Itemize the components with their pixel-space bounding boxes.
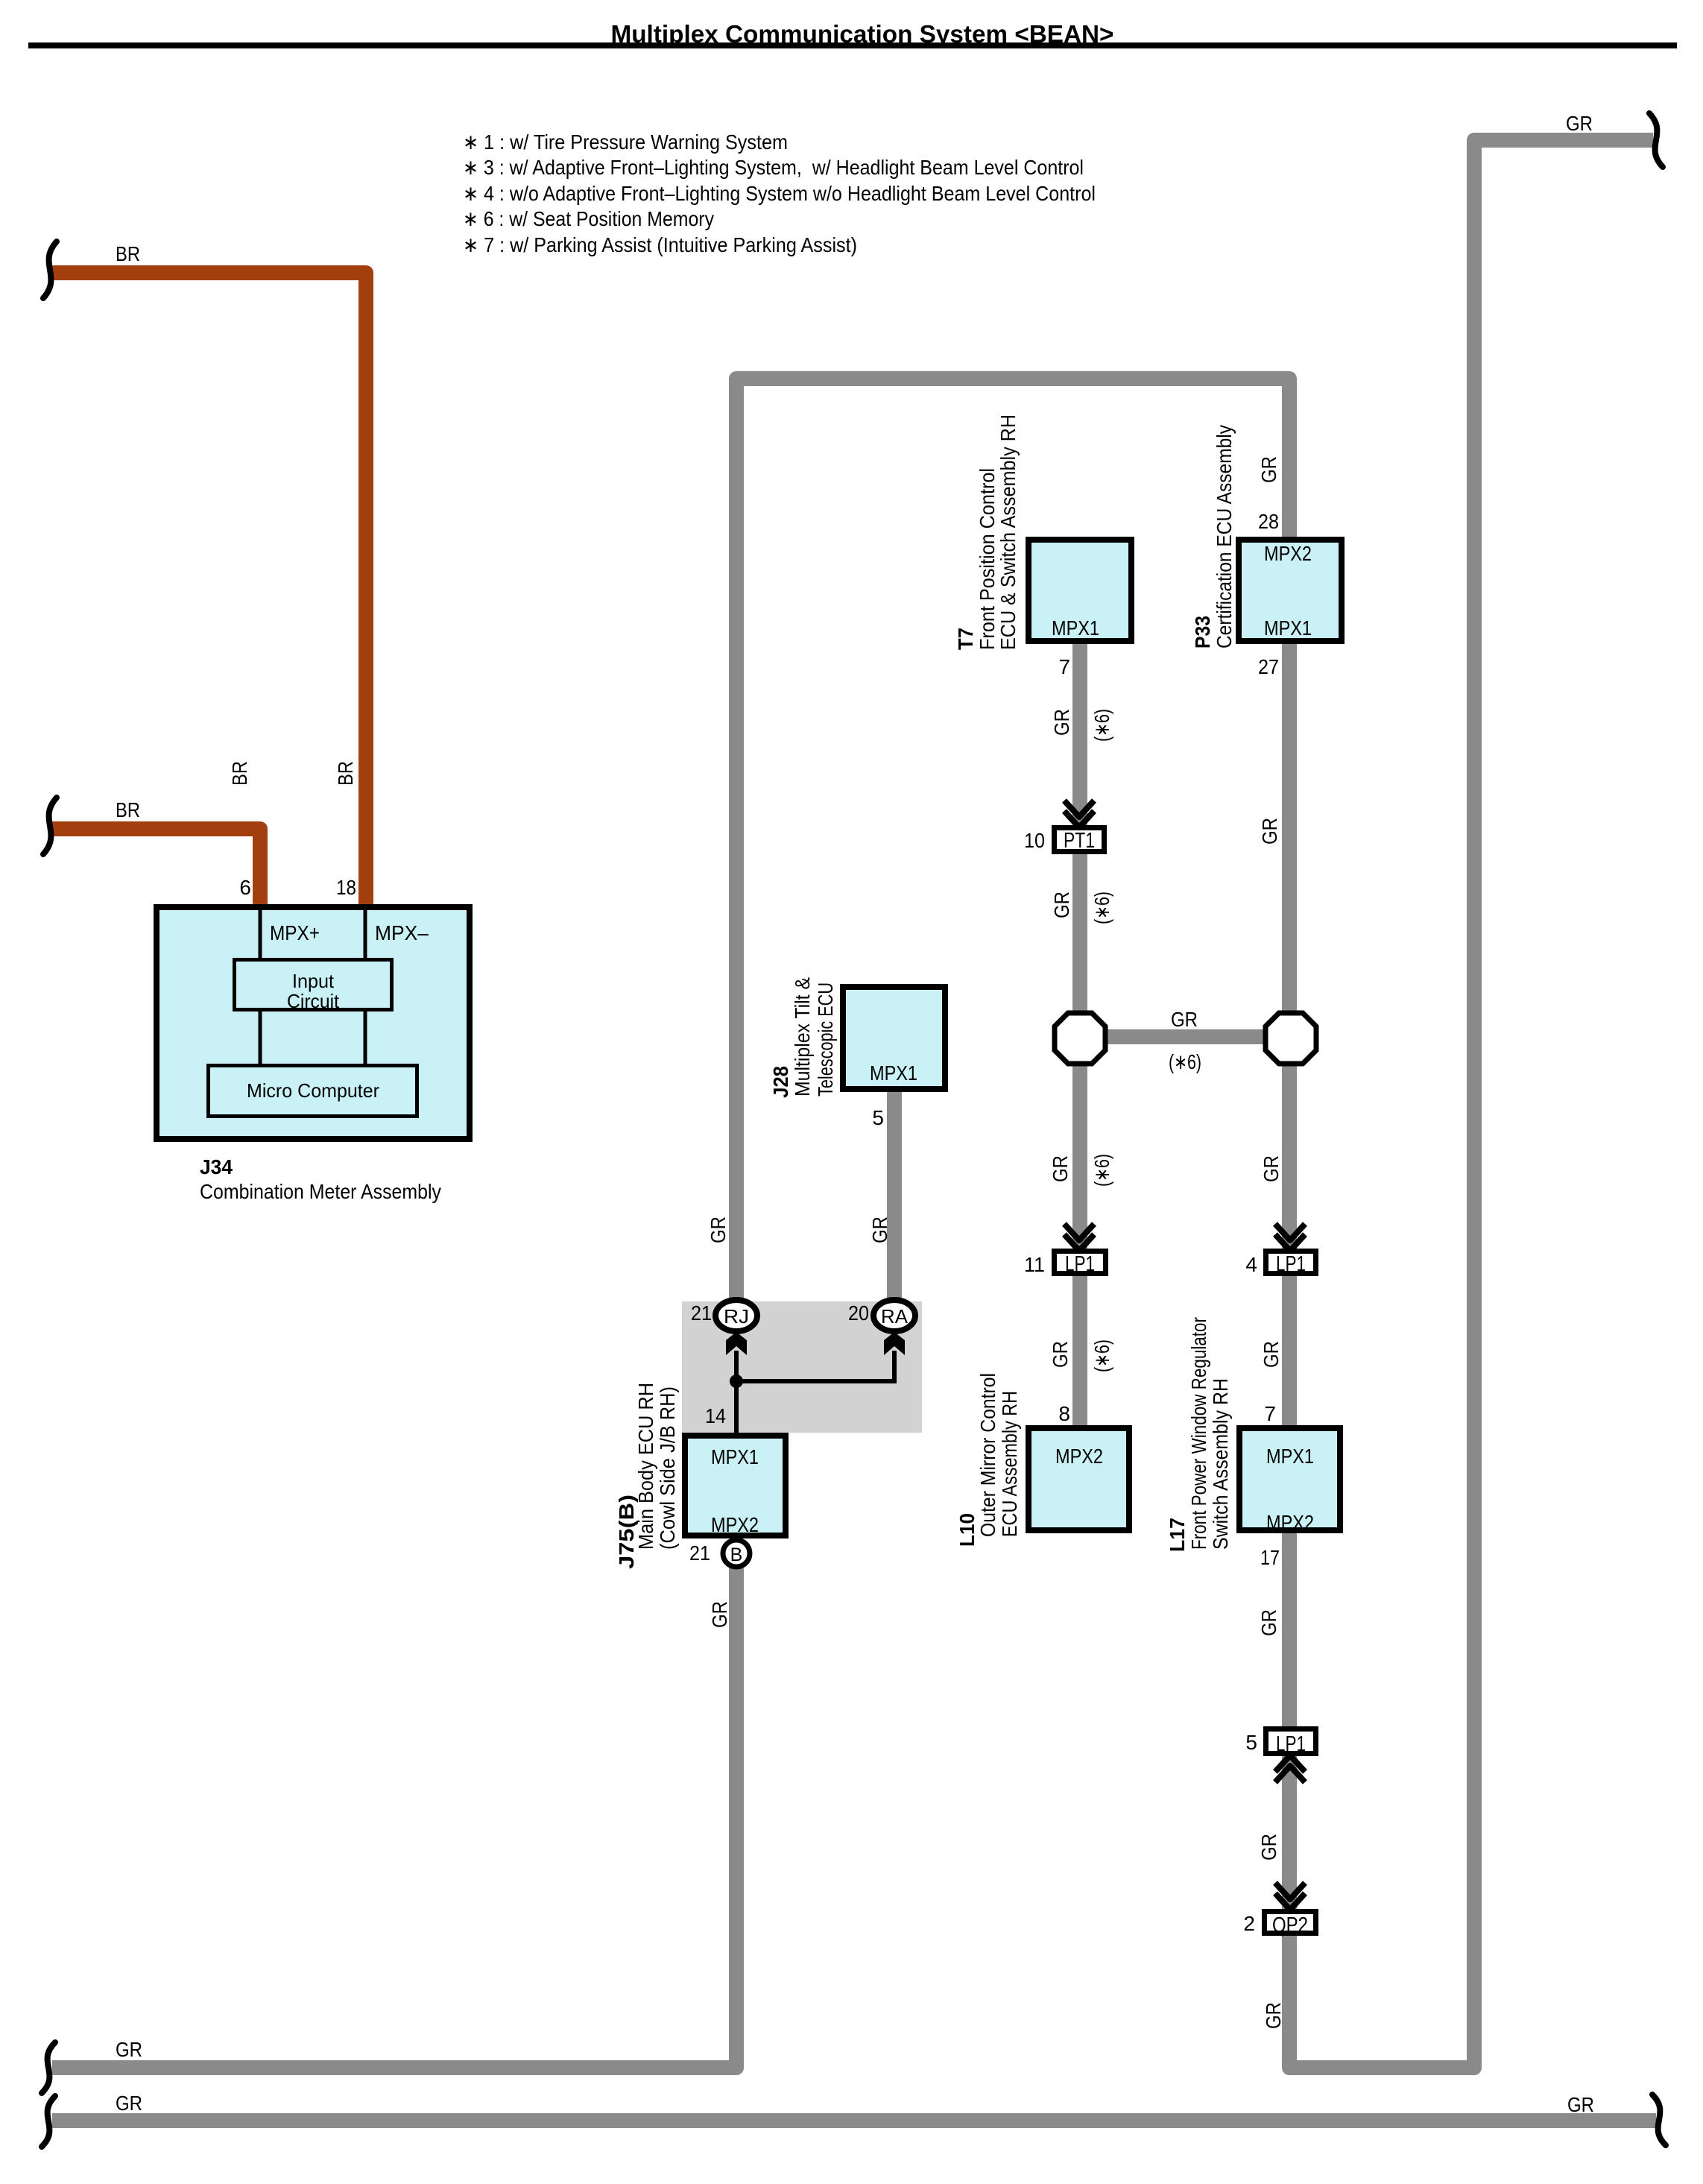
label P33 rotated: [1191, 616, 1214, 648]
pin 11 at LP1 left: [1024, 1253, 1045, 1276]
label BR rotated pin18: [334, 761, 357, 786]
pin 21 at RJ: [691, 1301, 712, 1325]
label GR on P33 wire above octagon: [1258, 818, 1281, 845]
svg-text:Combination Meter Assembly: Combination Meter Assembly: [200, 1180, 441, 1203]
svg-text:GR: GR: [1260, 1341, 1283, 1368]
svg-text:L17: L17: [1166, 1518, 1189, 1552]
wire BR to J34 pin6: [52, 829, 260, 906]
svg-text:(∗6): (∗6): [1090, 1339, 1113, 1372]
ECU J34 Combination Meter Assembly outline and internal leads: [157, 904, 470, 1139]
svg-text:Circuit: Circuit: [287, 990, 340, 1012]
svg-text:MPX2: MPX2: [1264, 542, 1312, 565]
svg-text:8: 8: [1058, 1402, 1070, 1425]
svg-text:GR: GR: [1566, 112, 1593, 135]
svg-text:BR: BR: [334, 761, 357, 786]
label GR below pin 17: [1257, 1609, 1280, 1636]
connector circle B: [723, 1540, 750, 1567]
svg-text:GR: GR: [708, 1601, 731, 1628]
svg-text:MPX1: MPX1: [1264, 616, 1312, 640]
svg-text:RJ: RJ: [724, 1305, 749, 1328]
label BR: [116, 798, 140, 821]
label L10 rotated: [955, 1513, 979, 1547]
svg-text:MPX+: MPX+: [270, 921, 320, 944]
ECU J75(B) Main Body ECU box: [685, 1436, 786, 1536]
chevron arrows into LP1 right: [1275, 1224, 1305, 1251]
svg-text:B: B: [730, 1544, 743, 1565]
title: [611, 20, 1114, 48]
thin bus line RJ to junction to J75B pin14: [734, 1351, 739, 1433]
svg-text:GR: GR: [1262, 2002, 1285, 2029]
svg-text:MPX2: MPX2: [1266, 1511, 1314, 1534]
svg-text:ECU & Switch Assembly RH: ECU & Switch Assembly RH: [996, 414, 1020, 650]
wire GR J28 pin5 down to RA: [887, 1092, 902, 1304]
svg-text:Certification ECU Assembly: Certification ECU Assembly: [1213, 425, 1236, 648]
svg-text:4: 4: [1245, 1253, 1257, 1276]
inner block Input Circuit: [235, 960, 392, 1013]
label GR below PT1: [1050, 891, 1073, 918]
label GR bottom right: [1567, 2093, 1594, 2116]
label GR below B: [708, 1601, 731, 1628]
svg-text:J34: J34: [200, 1155, 233, 1178]
svg-text:6: 6: [239, 876, 251, 899]
wire GR T7 pin7 down to L10 pin8: [1072, 643, 1087, 1427]
svg-text:BR: BR: [116, 798, 140, 821]
arrow into RA: [884, 1332, 905, 1355]
svg-text:RA: RA: [881, 1305, 909, 1328]
splice octagon left: [1055, 1013, 1105, 1064]
label (*6) octagon link: [1169, 1050, 1201, 1073]
pin 6 of J34: [239, 876, 251, 899]
label GR top right: [1566, 112, 1593, 135]
svg-text:MPX1: MPX1: [711, 1445, 759, 1468]
pin 18 of J34: [336, 876, 356, 899]
label GR below LP1 left: [1049, 1341, 1072, 1368]
svg-text:∗ 4 : w/o Adaptive Front–Light: ∗ 4 : w/o Adaptive Front–Lighting System…: [463, 182, 1096, 205]
label (*6) below LP1 left: [1090, 1339, 1113, 1372]
svg-text:27: 27: [1258, 655, 1279, 678]
svg-text:BR: BR: [228, 761, 251, 786]
svg-text:∗ 7 : w/ Parking Assist (Intui: ∗ 7 : w/ Parking Assist (Intuitive Parki…: [463, 233, 857, 256]
label GR octagon link: [1171, 1008, 1198, 1031]
label GR bottom left upper: [116, 2038, 142, 2061]
connector QP2: [1265, 1912, 1316, 1938]
label J34: [200, 1155, 233, 1178]
svg-text:GR: GR: [1257, 1609, 1280, 1636]
label MPX+ pin name: [270, 921, 320, 944]
svg-text:ECU Assembly RH: ECU Assembly RH: [998, 1391, 1021, 1537]
wire-break brace BR lower: [43, 798, 57, 854]
label GR below LP1 right: [1260, 1341, 1283, 1368]
wire GR trunk RJ-up-right to P33 pin28: [736, 379, 1289, 1304]
label J75(B) rotated: [615, 1495, 638, 1569]
svg-text:GR: GR: [116, 2038, 142, 2061]
label Telescopic ECU rotated: [814, 982, 837, 1096]
connector LP1 left: [1055, 1252, 1106, 1277]
label L17 rotated: [1166, 1518, 1189, 1552]
notes legend: [463, 130, 1096, 256]
label Main Body ECU RH rotated: [634, 1383, 657, 1550]
wire BR to J34 pin18: [52, 273, 366, 906]
svg-text:MPX2: MPX2: [1055, 1445, 1103, 1468]
connector oval RJ: [715, 1300, 757, 1331]
svg-text:GR: GR: [116, 2092, 142, 2115]
svg-text:Input: Input: [292, 970, 335, 992]
svg-text:GR: GR: [707, 1216, 730, 1243]
pin 7 of L17: [1264, 1402, 1276, 1425]
wire GR L17 pin17 down to QP2 to bottom right up to top brace: [1289, 140, 1653, 2068]
title rule: [28, 42, 1677, 48]
pin 20 at RA: [848, 1301, 869, 1325]
svg-text:PT1: PT1: [1064, 829, 1095, 853]
svg-text:T7: T7: [954, 628, 977, 650]
svg-text:MPX1: MPX1: [1052, 616, 1099, 640]
chevron arrows out of LP1 bottom: [1275, 1755, 1305, 1782]
svg-text:(∗6): (∗6): [1090, 891, 1113, 924]
pin 5 at LP1 bottom: [1245, 1731, 1257, 1754]
pin 28 of P33: [1258, 510, 1279, 533]
connector oval RA: [873, 1300, 915, 1331]
pin 17 of L17: [1260, 1546, 1280, 1569]
label GR on P33 top wire: [1257, 456, 1280, 483]
junction dot: [730, 1375, 743, 1388]
pin 21 at B: [689, 1541, 710, 1565]
svg-text:Multiplex Tilt &: Multiplex Tilt &: [791, 977, 814, 1096]
svg-text:21: 21: [689, 1541, 710, 1565]
svg-text:P33: P33: [1191, 616, 1214, 648]
svg-text:10: 10: [1024, 829, 1045, 852]
svg-text:(∗6): (∗6): [1090, 709, 1113, 742]
svg-text:LP1: LP1: [1276, 1252, 1306, 1276]
label (*6) above PT1: [1090, 709, 1113, 742]
wire GR octagon link: [1080, 1029, 1291, 1044]
label Certification ECU Assembly rotated: [1213, 425, 1236, 648]
pin 5 of J28: [872, 1106, 884, 1129]
svg-text:Main Body ECU RH: Main Body ECU RH: [634, 1383, 657, 1550]
pin 14 of J75B: [705, 1404, 726, 1427]
label BR: [116, 242, 140, 265]
pin 27 of P33: [1258, 655, 1279, 678]
ECU P33 Certification ECU box: [1239, 540, 1342, 641]
svg-text:GR: GR: [1257, 1834, 1280, 1860]
svg-text:5: 5: [872, 1106, 884, 1129]
svg-text:7: 7: [1264, 1402, 1276, 1425]
svg-text:21: 21: [691, 1301, 712, 1325]
pin 4 at LP1 right: [1245, 1253, 1257, 1276]
connector PT1: [1055, 828, 1105, 853]
svg-text:BR: BR: [116, 242, 140, 265]
junction block J/B shaded area: [682, 1301, 922, 1433]
svg-text:14: 14: [705, 1404, 726, 1427]
label Cowl Side J/B RH rotated: [656, 1386, 679, 1550]
svg-text:QP2: QP2: [1272, 1913, 1308, 1937]
svg-text:Switch Assembly RH: Switch Assembly RH: [1209, 1378, 1232, 1550]
svg-text:5: 5: [1245, 1731, 1257, 1754]
wire-break brace GR bottom left upper: [42, 2042, 55, 2093]
ECU L10 Outer Mirror Control box: [1029, 1428, 1129, 1530]
svg-text:GR: GR: [1050, 709, 1073, 736]
ECU L17 Front Power Window Regulator box: [1239, 1428, 1340, 1534]
svg-text:GR: GR: [1050, 891, 1073, 918]
ECU J28 Multiplex Tilt and Telescopic box: [843, 987, 945, 1089]
wire-break brace GR bottom left lower: [42, 2096, 55, 2147]
svg-text:17: 17: [1260, 1546, 1280, 1569]
connector LP1 bottom: [1266, 1729, 1316, 1757]
label Outer Mirror Control rotated: [976, 1373, 999, 1537]
label GR above PT1: [1050, 709, 1073, 736]
label (*6) below PT1: [1090, 891, 1113, 924]
svg-text:2: 2: [1243, 1912, 1255, 1935]
label Front Position Control rotated: [976, 468, 999, 650]
label GR below right octagon: [1260, 1155, 1283, 1182]
svg-text:Front Position Control: Front Position Control: [976, 468, 999, 650]
label Multiplex Tilt & rotated: [791, 977, 814, 1096]
svg-text:Micro Computer: Micro Computer: [247, 1079, 379, 1102]
svg-text:GR: GR: [1171, 1008, 1198, 1031]
svg-text:(∗6): (∗6): [1090, 1154, 1113, 1187]
label MPX- pin name: [375, 921, 429, 944]
label GR bottom left lower: [116, 2092, 142, 2115]
label (*6) below left octagon: [1090, 1154, 1113, 1187]
svg-text:GR: GR: [1257, 456, 1280, 483]
label BR rotated pin6: [228, 761, 251, 786]
svg-text:Front Power Window Regulator: Front Power Window Regulator: [1187, 1317, 1210, 1550]
svg-text:GR: GR: [1049, 1155, 1072, 1182]
svg-text:Telescopic ECU: Telescopic ECU: [814, 982, 837, 1096]
splice octagon right: [1266, 1013, 1316, 1064]
wire-break brace BR top: [43, 242, 57, 298]
label Front Power Window Regulator rotated: [1187, 1317, 1210, 1550]
inner block Micro Computer: [209, 1066, 417, 1117]
chevron arrows into PT1: [1064, 801, 1094, 827]
svg-text:GR: GR: [1258, 818, 1281, 845]
svg-text:∗ 1 : w/ Tire Pressure Warning: ∗ 1 : w/ Tire Pressure Warning System: [463, 130, 788, 154]
label Switch Assembly RH rotated: [1209, 1378, 1232, 1550]
svg-text:MPX2: MPX2: [711, 1513, 759, 1536]
wire-break brace GR top right: [1649, 113, 1663, 167]
pin 8 of L10: [1058, 1402, 1070, 1425]
svg-text:L10: L10: [955, 1513, 979, 1547]
chevron arrows into QP2: [1275, 1883, 1305, 1910]
label GR below LP1 bottom: [1257, 1834, 1280, 1860]
svg-text:∗ 3 : w/ Adaptive Front–Lighti: ∗ 3 : w/ Adaptive Front–Lighting System,…: [463, 156, 1084, 179]
svg-text:20: 20: [848, 1301, 869, 1325]
pin 10 at PT1: [1024, 829, 1045, 852]
label GR below QP2: [1262, 2002, 1285, 2029]
svg-text:∗ 6 : w/ Seat Position Memory: ∗ 6 : w/ Seat Position Memory: [463, 207, 714, 230]
svg-text:GR: GR: [868, 1216, 891, 1243]
svg-text:LP1: LP1: [1065, 1252, 1095, 1276]
label ECU Assembly RH rotated: [998, 1391, 1021, 1537]
wire GR P33 pin27 down to L17 pin7: [1282, 643, 1297, 1427]
svg-text:GR: GR: [1260, 1155, 1283, 1182]
svg-text:11: 11: [1024, 1253, 1045, 1276]
svg-text:(Cowl Side J/B RH): (Cowl Side J/B RH): [656, 1386, 679, 1550]
label GR on J28 wire: [868, 1216, 891, 1243]
pin 2 at QP2: [1243, 1912, 1255, 1935]
label T7 rotated: [954, 628, 977, 650]
svg-text:MPX1: MPX1: [1266, 1445, 1314, 1468]
pin 7 of T7: [1058, 655, 1070, 678]
thin bus line junction to RA: [736, 1351, 894, 1381]
wire GR bottom full width: [52, 2113, 1656, 2128]
connector LP1 right: [1266, 1252, 1316, 1277]
svg-text:MPX–: MPX–: [375, 921, 429, 944]
svg-text:28: 28: [1258, 510, 1279, 533]
svg-text:Outer Mirror Control: Outer Mirror Control: [976, 1373, 999, 1537]
arrow into RJ: [726, 1332, 747, 1355]
svg-text:GR: GR: [1567, 2093, 1594, 2116]
svg-text:GR: GR: [1049, 1341, 1072, 1368]
label GR on RJ trunk: [707, 1216, 730, 1243]
svg-text:(∗6): (∗6): [1169, 1050, 1201, 1073]
svg-text:18: 18: [336, 876, 356, 899]
label Combination Meter Assembly: [200, 1180, 441, 1203]
svg-text:J28: J28: [769, 1066, 792, 1098]
label GR below left octagon: [1049, 1155, 1072, 1182]
ECU T7 Front Position Control box: [1029, 540, 1131, 641]
chevron arrows into LP1 left: [1064, 1224, 1094, 1251]
svg-text:7: 7: [1058, 655, 1070, 678]
label J28 rotated: [769, 1066, 792, 1098]
label ECU & Switch Assembly RH rotated: [996, 414, 1020, 650]
svg-text:MPX1: MPX1: [870, 1061, 917, 1085]
wire-break brace GR bottom right: [1652, 2095, 1666, 2145]
wire GR B down to bottom left brace: [52, 1564, 736, 2068]
